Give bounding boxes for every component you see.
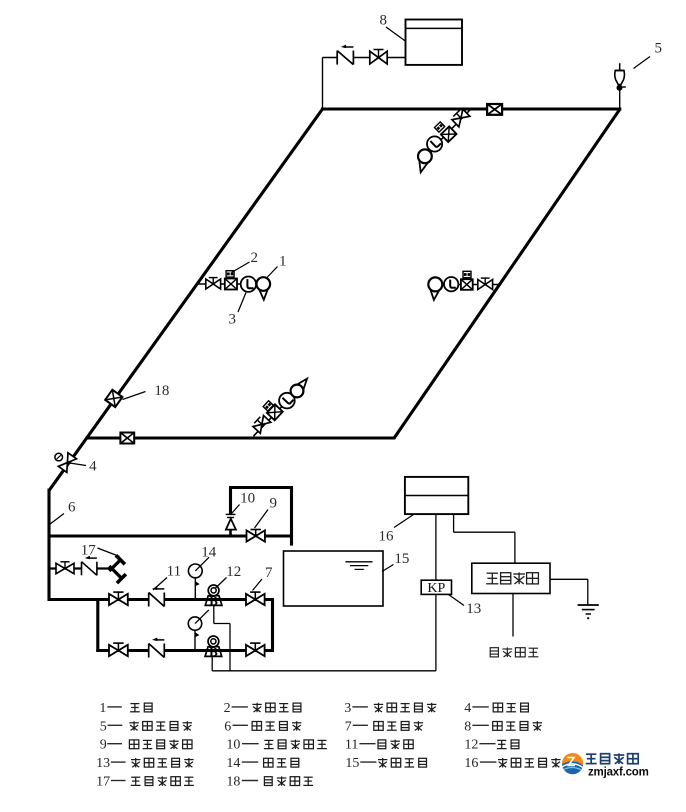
svg-text:5: 5 [100, 719, 107, 734]
svg-text:8: 8 [380, 13, 388, 29]
svg-text:13: 13 [466, 601, 481, 617]
svg-text:14: 14 [226, 756, 240, 771]
svg-text:6: 6 [68, 500, 76, 516]
svg-text:1: 1 [279, 253, 287, 269]
svg-text:3: 3 [229, 312, 237, 328]
svg-text:4: 4 [89, 459, 97, 475]
svg-text:2: 2 [224, 701, 231, 716]
svg-text:7: 7 [265, 565, 273, 581]
svg-text:KP: KP [427, 581, 445, 596]
svg-text:6: 6 [224, 719, 231, 734]
svg-text:2: 2 [250, 250, 258, 266]
svg-text:B: B [209, 593, 218, 608]
svg-text:17: 17 [81, 543, 97, 559]
svg-text:7: 7 [345, 719, 352, 734]
svg-text:18: 18 [226, 775, 240, 790]
svg-text:4: 4 [464, 701, 471, 716]
svg-text:16: 16 [379, 529, 395, 545]
svg-text:17: 17 [96, 775, 110, 790]
svg-text:5: 5 [655, 41, 663, 57]
svg-text:12: 12 [464, 738, 478, 753]
svg-text:zmjaxf.com: zmjaxf.com [588, 767, 649, 779]
svg-text:10: 10 [240, 491, 255, 507]
svg-text:15: 15 [345, 756, 359, 771]
svg-text:B: B [209, 644, 218, 659]
svg-text:9: 9 [269, 496, 277, 512]
svg-text:3: 3 [344, 701, 351, 716]
svg-text:8: 8 [464, 719, 471, 734]
svg-text:16: 16 [464, 756, 478, 771]
svg-text:12: 12 [226, 564, 241, 580]
svg-text:15: 15 [394, 551, 409, 567]
svg-text:13: 13 [96, 756, 110, 771]
svg-text:10: 10 [226, 738, 240, 753]
svg-text:18: 18 [154, 383, 169, 399]
svg-text:11: 11 [345, 738, 358, 753]
svg-text:1: 1 [99, 701, 106, 716]
svg-text:14: 14 [201, 545, 217, 561]
svg-text:9: 9 [100, 738, 107, 753]
svg-text:11: 11 [167, 564, 181, 580]
